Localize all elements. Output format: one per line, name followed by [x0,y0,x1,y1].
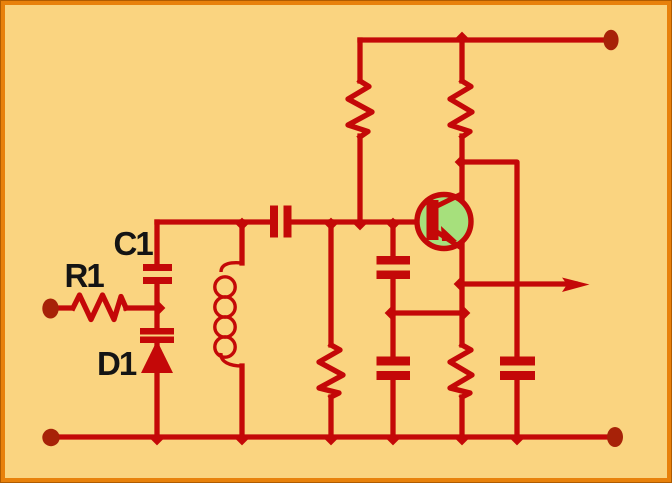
junction rail divider resistor [325,433,338,446]
wire left bias resistor bottom stub [357,136,362,222]
wire base node horizontal left segment [157,219,270,224]
capacitor (coupling, series in base wire) [270,206,278,238]
capacitor (feedback, lower) [377,357,411,366]
capacitor (feedback, upper) [377,256,411,265]
terminal bottom-right ground [607,427,623,447]
svg-text:R1: R1 [65,257,105,294]
wire inductor top stub [239,222,244,263]
wire R1 input stub [56,305,72,310]
resistor (base bias, upper left) [348,81,372,137]
wire C1 top stub [154,222,159,265]
capacitor C1 plates [143,264,172,271]
junction base node / divider resistor [325,218,338,231]
wire base node horizontal right segment [292,219,428,224]
junction rail D1 [151,433,164,446]
transistor emitter lead [437,232,462,248]
capacitor (output, right) [500,357,535,366]
wire left bias resistor top stub [357,40,362,81]
wire right cap bottom stub [514,379,519,437]
junction emitter / output [454,278,467,291]
junction base node / inductor [236,218,249,231]
wire between feedback caps [390,278,395,356]
wire collector stub to transistor [459,136,464,198]
wire top supply rail [360,37,608,42]
wire inductor bottom stub [239,366,244,437]
junction cap chain mid right [458,307,471,320]
junction collector branch node [455,156,468,169]
wire mid resistor top stub [328,222,333,345]
junction top rail / collector resistor [456,32,469,45]
resistor R1 body [73,295,126,320]
transistor emitter arrow [441,226,457,241]
junction base node / cap chain [387,218,400,231]
output arrowhead [562,278,590,293]
wire D1 anode to bottom rail [154,371,159,437]
svg-text:D1: D1 [97,345,137,382]
svg-text:C1: C1 [114,225,154,262]
wire C1 to R1 junction [154,283,159,328]
wire collector branch to right [462,162,517,356]
transistor circle body [417,195,471,249]
varactor D1 triangle [141,341,173,374]
wire emitter down [459,245,464,345]
wire output line [462,281,575,286]
transistor collector lead [437,194,462,206]
wire R1 to junction [126,305,157,310]
wire collector resistor top stub [459,40,464,81]
junction R1 C1 D1 [153,302,166,315]
terminal top-right supply [603,30,618,51]
junction base node / bias resistor [354,218,367,231]
transistor Q1 (NPN, green body) [417,194,471,249]
wire feedback cap chain top stub [390,222,395,256]
junction rail output cap [511,433,524,446]
resistor (emitter) [450,345,472,397]
wire D1 cathode stub (within) [154,343,159,346]
wire feedback cap chain bottom stub [390,379,395,437]
terminal input left [42,299,58,319]
junction rail cap chain [387,433,400,446]
wire bottom ground rail [51,434,613,439]
transistor base bar [427,200,439,240]
wire emitter resistor bottom stub [459,397,464,437]
wire cap chain to emitter [393,310,462,315]
junction rail emitter resistor [456,433,469,446]
wire mid resistor bottom stub [328,397,333,437]
resistor (base divider, lower) [319,345,343,397]
varactor D1 capacitor plates [140,328,174,335]
terminal bottom-left ground [42,429,59,446]
inductor L1 [215,263,242,366]
junction cap chain mid left [385,307,398,320]
resistor (collector load) [450,81,472,137]
junction rail inductor [236,433,249,446]
